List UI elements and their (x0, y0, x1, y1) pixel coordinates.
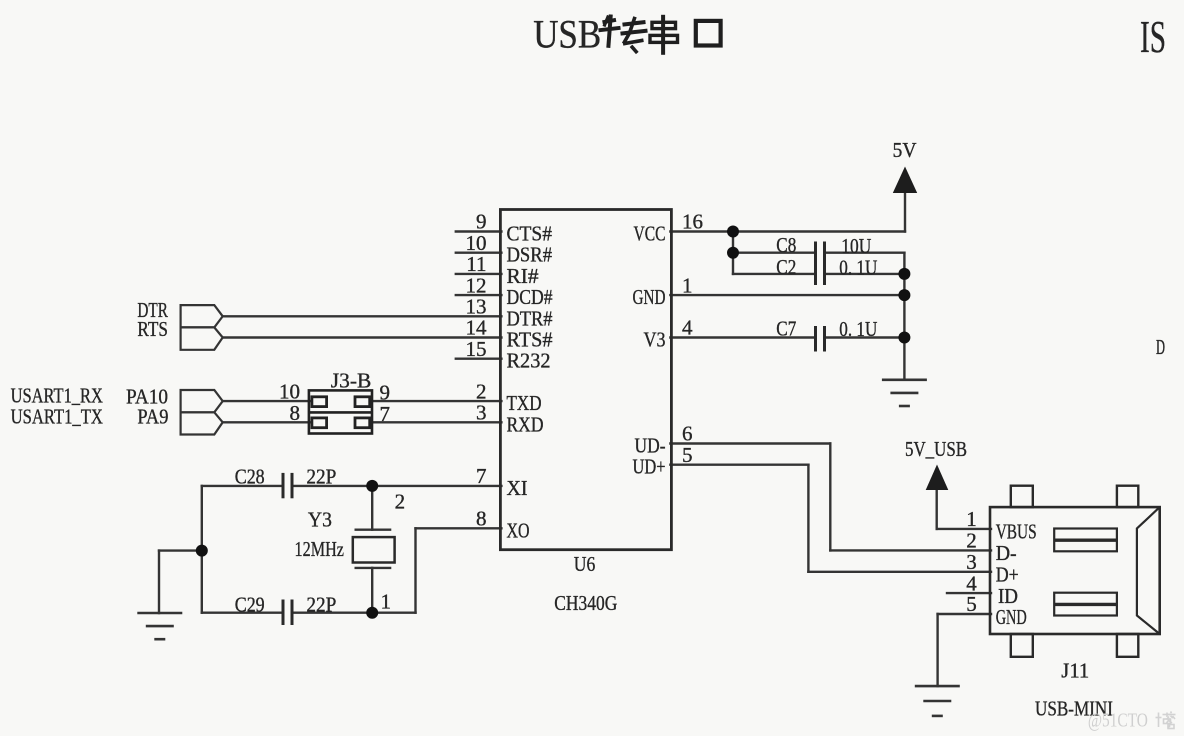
svg-text:V3: V3 (644, 328, 666, 352)
svg-text:USB: USB (533, 12, 601, 57)
svg-text:8: 8 (476, 507, 487, 531)
svg-text:C7: C7 (776, 317, 796, 341)
svg-text:15: 15 (466, 337, 487, 361)
svg-text:0. 1U: 0. 1U (839, 255, 877, 279)
svg-text:RXD: RXD (507, 412, 544, 436)
svg-text:GND: GND (996, 605, 1027, 629)
svg-text:Y3: Y3 (308, 507, 332, 531)
svg-text:2: 2 (395, 489, 406, 513)
svg-text:R232: R232 (507, 349, 551, 373)
svg-text:8: 8 (290, 401, 301, 425)
svg-text:16: 16 (682, 210, 703, 234)
svg-text:C8: C8 (776, 233, 796, 257)
svg-text:1: 1 (966, 507, 977, 531)
svg-text:D-: D- (996, 541, 1017, 565)
svg-text:CH340G: CH340G (554, 591, 617, 615)
svg-text:1: 1 (381, 589, 392, 613)
svg-text:D: D (1156, 335, 1165, 359)
svg-text:C2: C2 (776, 255, 796, 279)
svg-text:5: 5 (682, 443, 693, 467)
svg-text:GND: GND (633, 285, 666, 309)
svg-text:5V: 5V (893, 138, 917, 162)
svg-text:5V_USB: 5V_USB (905, 437, 967, 461)
svg-text:7: 7 (380, 402, 391, 426)
svg-text:USART1_TX: USART1_TX (11, 405, 103, 429)
svg-text:C28: C28 (235, 464, 265, 488)
svg-text:U6: U6 (574, 552, 596, 576)
svg-text:XI: XI (507, 476, 528, 500)
svg-text:IS: IS (1140, 11, 1166, 62)
svg-text:RTS: RTS (137, 317, 168, 341)
svg-text:UD+: UD+ (633, 455, 666, 479)
svg-text:PA9: PA9 (137, 405, 168, 429)
svg-text:12MHz: 12MHz (295, 537, 345, 561)
svg-text:2: 2 (966, 529, 977, 553)
svg-text:VBUS: VBUS (996, 520, 1037, 544)
svg-text:22P: 22P (306, 464, 336, 488)
svg-text:7: 7 (476, 464, 487, 488)
svg-text:9: 9 (380, 380, 391, 404)
svg-text:XO: XO (507, 518, 530, 542)
svg-text:@51CTO: @51CTO (1088, 710, 1148, 732)
svg-text:C29: C29 (235, 592, 265, 616)
svg-text:1: 1 (682, 273, 693, 297)
svg-text:22P: 22P (306, 592, 336, 616)
svg-text:J11: J11 (1061, 659, 1089, 683)
svg-text:5: 5 (966, 592, 977, 616)
svg-text:0. 1U: 0. 1U (839, 317, 877, 341)
svg-text:4: 4 (682, 316, 693, 340)
svg-text:VCC: VCC (634, 222, 666, 246)
svg-text:J3-B: J3-B (331, 368, 372, 392)
svg-text:3: 3 (476, 401, 487, 425)
